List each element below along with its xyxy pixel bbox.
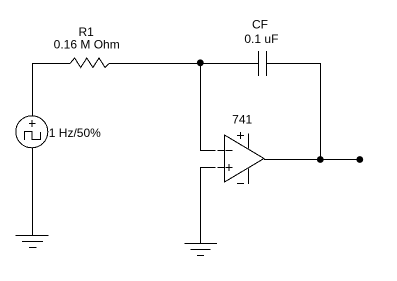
ground right (op-amp non-inverting) xyxy=(185,244,218,256)
op-amp non-inverting input plus mark xyxy=(226,164,233,171)
svg-text:1 Hz/50%: 1 Hz/50% xyxy=(49,126,101,140)
svg-text:741: 741 xyxy=(232,113,252,127)
label R1 xyxy=(79,25,95,39)
wire from capacitor CF right plate to right corner xyxy=(267,63,321,65)
label 741 xyxy=(232,113,252,127)
ground left (source) xyxy=(16,236,49,248)
svg-text:0.1 uF: 0.1 uF xyxy=(244,32,278,46)
op-amp V- power pin stub xyxy=(248,169,250,185)
wire non-inverting-input drop to ground xyxy=(200,168,202,244)
wire inverting-input horizontal to op-amp xyxy=(200,150,216,152)
wire left riser from top wire down to source top xyxy=(32,63,34,116)
wire from node to capacitor CF left plate xyxy=(204,63,259,65)
pulse source plus polarity mark xyxy=(29,120,36,127)
wire right vertical from top wire down to output junction xyxy=(320,63,322,160)
label 1 Hz/50% xyxy=(49,126,101,140)
pulse source square-wave glyph xyxy=(25,132,41,141)
svg-text:CF: CF xyxy=(252,18,268,32)
label 0.16 M Ohm xyxy=(54,38,120,52)
label 0.1 uF xyxy=(244,32,278,46)
wire pin stub non-inverting input at op-amp edge xyxy=(218,167,225,169)
op-amp V- power minus mark xyxy=(237,183,244,185)
resistor R1 zigzag xyxy=(70,58,109,68)
label CF xyxy=(252,18,268,32)
wire source bottom to left ground xyxy=(32,148,34,236)
wire non-inverting-input horizontal xyxy=(200,167,216,169)
wire top-left horizontal from source riser to R1 xyxy=(32,63,70,65)
op-amp U1 triangle body xyxy=(225,135,265,182)
pulse source V1 circle xyxy=(16,116,48,148)
op-amp V+ power plus mark xyxy=(237,132,244,139)
op-amp V+ power pin stub xyxy=(248,134,250,149)
wire output from op-amp apex to terminal xyxy=(264,159,360,161)
wire inverting-input riser from node down xyxy=(200,63,202,151)
node output junction dot xyxy=(317,156,324,163)
node output terminal dot xyxy=(356,156,363,163)
svg-text:0.16 M Ohm: 0.16 M Ohm xyxy=(54,38,120,52)
op-amp inverting input minus mark xyxy=(226,150,233,152)
node junction dot at R1/CF/op-amp net xyxy=(197,59,204,66)
capacitor CF plates xyxy=(259,51,267,76)
wire from R1 to node xyxy=(109,63,197,65)
wire pin stub inverting input at op-amp edge xyxy=(218,150,225,152)
